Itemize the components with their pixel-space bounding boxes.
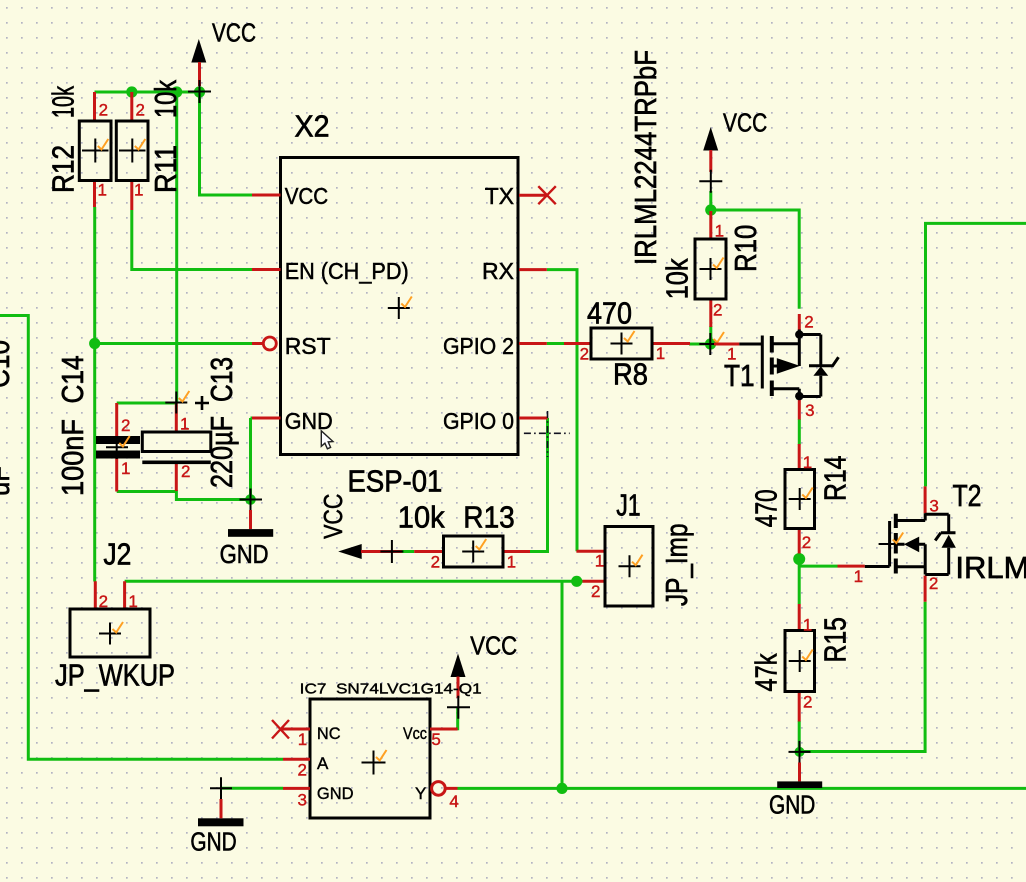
svg-text:VCC: VCC	[285, 183, 329, 209]
wire C14 top link	[117, 402, 177, 405]
resistor R13	[414, 536, 530, 567]
svg-text:Y: Y	[415, 784, 426, 803]
svg-text:1: 1	[134, 181, 143, 200]
svg-text:3: 3	[805, 401, 814, 420]
svg-text:R14: R14	[818, 456, 853, 501]
svg-text:VCC: VCC	[470, 631, 517, 661]
svg-text:R8: R8	[613, 357, 648, 392]
transistor T1 (IRLML2244TRPbF)	[699, 314, 838, 420]
svg-text:A: A	[317, 754, 329, 773]
IC X2 (ESP-01)	[252, 158, 556, 455]
svg-text:IC7 SN74LVC1G14-Q1: IC7 SN74LVC1G14-Q1	[300, 681, 482, 698]
svg-text:T2: T2	[953, 478, 982, 513]
capacitor C13	[142, 391, 211, 491]
svg-text:1: 1	[803, 616, 812, 635]
node C-net GND junction	[245, 494, 256, 505]
svg-text:220µF: 220µF	[204, 416, 239, 488]
wire R12 net to RST and J2	[93, 207, 96, 582]
svg-text:R15: R15	[818, 617, 853, 662]
node VCC rail / R11	[126, 86, 137, 97]
wire X2 GND pin link	[251, 417, 253, 420]
svg-text:2: 2	[804, 312, 813, 331]
svg-text:RST: RST	[285, 333, 331, 359]
svg-text:100nF: 100nF	[55, 419, 90, 496]
wire junction to T1 drain	[711, 210, 799, 309]
resistor R14	[785, 444, 815, 554]
wire RST horizontal	[95, 342, 252, 345]
ground symbol (X2 GND)	[228, 489, 273, 537]
svg-text:Vcc: Vcc	[403, 724, 427, 743]
wire T2 source down and to GND junction	[800, 602, 926, 752]
ground symbol (IC7)	[210, 777, 232, 818]
svg-text:C13: C13	[204, 357, 239, 402]
wire GPIO2 link	[547, 342, 565, 345]
svg-text:J2: J2	[103, 537, 131, 572]
svg-text:470: 470	[587, 296, 632, 331]
svg-text:1: 1	[128, 592, 137, 611]
node VCC rail / C-net	[171, 86, 182, 97]
wire VCC top rail	[95, 92, 253, 195]
svg-text:1: 1	[298, 730, 307, 749]
wire VCC to R13 link	[402, 550, 414, 553]
svg-text:3: 3	[298, 791, 307, 810]
node bottom rail junction	[556, 783, 567, 794]
svg-text:uF: uF	[0, 466, 16, 496]
node R10 top junction	[705, 204, 716, 215]
svg-text:470: 470	[749, 489, 784, 527]
svg-text:TX: TX	[485, 183, 514, 209]
crosshair cursor at GPIO0 wire	[524, 432, 570, 434]
wire junction to T2 gate	[799, 565, 837, 568]
wire T1 source to R14	[798, 419, 801, 445]
svg-text:2: 2	[99, 592, 108, 611]
node J1 pin2 junction	[571, 576, 582, 587]
wire IC7 VCC link	[456, 708, 458, 729]
svg-text:2: 2	[580, 345, 589, 364]
svg-text:RX: RX	[482, 258, 514, 284]
wire X2 GND down	[249, 418, 252, 500]
svg-text:1: 1	[854, 567, 863, 586]
svg-text:2: 2	[121, 416, 130, 435]
wire R8 to T1 gate junction	[689, 343, 711, 346]
svg-text:R11: R11	[148, 145, 183, 193]
node R15 GND junction	[795, 747, 805, 757]
svg-text:2: 2	[99, 101, 108, 120]
svg-text:1: 1	[121, 459, 130, 478]
svg-text:1: 1	[656, 344, 665, 363]
svg-text:47k: 47k	[749, 653, 784, 691]
wire J2 pin1 to J1 pin2	[125, 580, 583, 583]
no-connect X on TX	[538, 186, 556, 204]
svg-text:IRLML2: IRLML2	[955, 550, 1026, 585]
svg-text:1: 1	[180, 415, 189, 434]
wire VCC to R10 junction	[709, 191, 712, 211]
wire R15 to GND junction	[798, 721, 801, 752]
svg-text:C10: C10	[0, 340, 16, 388]
svg-text:4: 4	[449, 792, 458, 811]
svg-text:1: 1	[727, 345, 736, 364]
svg-text:EN (CH_PD): EN (CH_PD)	[285, 258, 409, 284]
svg-text:R12: R12	[46, 145, 81, 193]
mouse cursor	[321, 431, 333, 449]
wire R10 bottom to junction	[709, 326, 712, 344]
jumper J2 (JP_WKUP)	[70, 581, 150, 657]
svg-text:R10: R10	[728, 225, 763, 272]
wire R14 to R15 through junction	[798, 553, 801, 604]
svg-text:VCC: VCC	[723, 107, 767, 137]
svg-text:C14: C14	[55, 356, 90, 404]
supply GND mid (C13/C14)	[198, 818, 244, 826]
wire IC7 GND link	[221, 787, 283, 790]
svg-text:10k: 10k	[398, 500, 445, 535]
wire EN net	[132, 210, 252, 270]
svg-text:1: 1	[803, 453, 812, 472]
jumper J1 (JP_Imp)	[576, 527, 653, 607]
svg-text:GND: GND	[285, 408, 333, 434]
svg-text:R13: R13	[463, 500, 515, 535]
svg-text:5: 5	[431, 730, 440, 749]
svg-text:3: 3	[929, 496, 938, 515]
svg-text:2: 2	[713, 301, 722, 320]
svg-text:VCC: VCC	[212, 17, 256, 47]
wire GPIO0 down to R13	[530, 418, 548, 552]
svg-text:2: 2	[298, 761, 307, 780]
svg-text:1: 1	[715, 222, 724, 241]
svg-text:JP_Imp: JP_Imp	[659, 524, 694, 607]
svg-text:2: 2	[181, 462, 190, 481]
svg-text:2: 2	[591, 582, 600, 601]
svg-text:GND: GND	[220, 539, 269, 569]
svg-text:X2: X2	[295, 109, 330, 144]
resistor R8	[564, 328, 690, 359]
svg-text:GND: GND	[317, 784, 354, 803]
svg-text:GPIO 0: GPIO 0	[443, 408, 514, 434]
ground symbol (R15/T2)	[777, 741, 822, 788]
resistor R12	[79, 92, 111, 207]
svg-text:2: 2	[803, 693, 812, 712]
capacitor C14	[96, 403, 140, 492]
resistor R11	[116, 92, 148, 210]
wire C14/C13 bottom to GND	[117, 492, 251, 500]
svg-text:2: 2	[929, 574, 938, 593]
supply VCC at IC7	[447, 654, 470, 719]
wire junction down to bottom rail	[561, 581, 564, 788]
svg-text:JP_WKUP: JP_WKUP	[55, 658, 175, 693]
supply VCC top-left	[188, 39, 211, 103]
node RST junction	[89, 338, 100, 349]
resistor R10	[695, 211, 726, 327]
svg-text:10k: 10k	[660, 258, 695, 299]
svg-text:10k: 10k	[46, 86, 81, 118]
wire T2 drain from right edge	[926, 223, 1026, 486]
supply VCC left arrow (R13)	[338, 540, 403, 563]
svg-text:IRLML2244TRPbF: IRLML2244TRPbF	[628, 50, 663, 265]
resistor R15	[785, 604, 815, 722]
svg-text:NC: NC	[317, 724, 341, 743]
svg-text:1: 1	[98, 181, 107, 200]
svg-text:10k: 10k	[148, 80, 183, 118]
svg-text:GPIO 2: GPIO 2	[443, 333, 514, 359]
node T1 gate junction	[705, 338, 716, 349]
wire RX net down to J1	[547, 270, 577, 552]
node VCC rail corner	[194, 86, 205, 97]
wire left A-net	[0, 316, 283, 760]
svg-text:GND: GND	[769, 790, 815, 820]
IC IC7 (SN74LVC1G14-Q1)	[272, 699, 458, 818]
svg-text:J1: J1	[616, 487, 641, 522]
svg-text:1: 1	[595, 552, 604, 571]
supply VCC at R10	[699, 127, 722, 193]
wire C13/C14 vertical net	[175, 92, 178, 403]
svg-text:GND: GND	[190, 827, 236, 857]
svg-text:VCC: VCC	[318, 494, 348, 539]
svg-text:ESP-01: ESP-01	[348, 463, 443, 498]
svg-text:2: 2	[136, 101, 145, 120]
wire bottom GND rail	[458, 787, 1026, 790]
svg-text:2: 2	[802, 533, 811, 552]
svg-text:2: 2	[431, 552, 440, 571]
transistor T2 (IRLML...)	[838, 486, 956, 601]
node R14 bottom junction	[793, 553, 805, 565]
svg-text:1: 1	[507, 552, 516, 571]
